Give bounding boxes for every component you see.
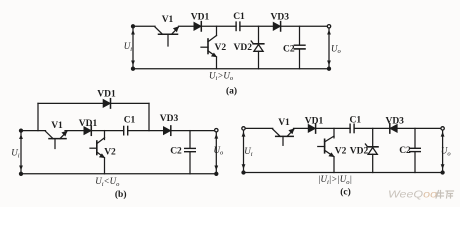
svg-text:Ui>Uo: Ui>Uo	[209, 70, 234, 82]
svg-text:C2: C2	[283, 45, 295, 55]
capacitor C2 (b)	[185, 131, 196, 174]
svg-text:VD3: VD3	[385, 116, 404, 126]
terminal (c) output -	[441, 171, 444, 174]
svg-text:C1: C1	[233, 12, 245, 22]
capacitor C2 (c)	[410, 128, 421, 172]
svg-text:VD2: VD2	[350, 146, 369, 156]
svg-text:C1: C1	[349, 116, 361, 126]
capacitor C1 (a)	[236, 22, 240, 30]
wire (a) V2 emitter	[216, 57, 218, 69]
svg-text:VD1: VD1	[305, 116, 324, 126]
voltage arrows Ui (a)	[131, 30, 135, 66]
terminal (c) output +	[441, 127, 444, 130]
wire (c) V2 emitter	[333, 157, 335, 173]
transistor V2 (b)	[90, 138, 105, 158]
transistor V2 (a)	[201, 36, 217, 58]
voltage arrows Ui (b)	[19, 134, 23, 170]
svg-text:C2: C2	[399, 146, 411, 156]
voltage arrows Uo (a)	[327, 30, 331, 66]
svg-text:V1: V1	[162, 15, 174, 25]
wire (c) top rail	[244, 127, 443, 129]
svg-text:(b): (b)	[115, 189, 127, 200]
diode VD1 (b)	[84, 126, 91, 135]
transistor V1 (a)	[155, 26, 179, 46]
capacitor C2 (a)	[294, 26, 305, 68]
svg-text:Ui: Ui	[11, 148, 20, 160]
wire (b) bottom rail	[21, 173, 216, 175]
wire (a) bottom rail	[133, 68, 329, 70]
terminal (a) output +	[327, 25, 330, 28]
diode VD1 (c)	[308, 124, 315, 133]
wire (b) V2 collector	[104, 131, 106, 140]
wire (b) top rail	[21, 130, 216, 132]
terminal (b) output +	[215, 129, 218, 132]
wire (a) input vertical	[132, 26, 134, 68]
terminal (b) input +	[19, 129, 22, 132]
terminal (c) input -	[242, 171, 245, 174]
svg-text:VD1: VD1	[79, 119, 98, 129]
watermark WeeQoo weiku	[388, 190, 454, 201]
terminal (a) input +	[131, 25, 134, 28]
svg-text:VD3: VD3	[160, 114, 179, 124]
svg-text:V2: V2	[335, 146, 347, 156]
transistor V1 (c)	[273, 128, 295, 145]
diode VD1 bypass (b)	[103, 99, 110, 108]
svg-text:WeeQoo: WeeQoo	[388, 190, 437, 201]
svg-text:VD2: VD2	[234, 43, 253, 53]
svg-text:|Ui|>|Uo|: |Ui|>|Uo|	[318, 174, 352, 186]
svg-text:VD3: VD3	[271, 13, 290, 23]
wire (c) V2 collector	[333, 128, 335, 137]
wire (a) V2 collector	[216, 26, 218, 35]
diode VD3 (b)	[164, 126, 171, 135]
voltage arrows Uo (c)	[441, 132, 445, 169]
diode VD3 (c)	[390, 124, 397, 133]
svg-text:Ui: Ui	[124, 41, 133, 53]
voltage arrows Ui (c)	[242, 132, 246, 169]
svg-text:(c): (c)	[340, 187, 351, 198]
diode VD3 (a)	[273, 22, 280, 31]
terminal (b) output -	[215, 172, 218, 175]
svg-text:Uo: Uo	[214, 145, 225, 157]
svg-text:V1: V1	[278, 118, 290, 128]
wire (b) output vertical	[215, 131, 217, 174]
transistor V2 (c)	[318, 136, 335, 157]
terminal (c) input +	[242, 127, 245, 130]
diode VD1 (a)	[194, 22, 201, 31]
svg-text:Uo: Uo	[331, 43, 342, 55]
wire (b) bypass branch	[38, 103, 149, 130]
svg-text:VD1: VD1	[97, 90, 116, 100]
wire (a) top rail	[133, 25, 329, 27]
capacitor C1 (b)	[124, 126, 128, 134]
wire (a) output vertical	[328, 26, 330, 68]
terminal (a) input -	[131, 67, 134, 70]
wire (b) input vertical	[20, 131, 22, 174]
wire (c) output vertical	[442, 128, 444, 172]
svg-text:(a): (a)	[226, 85, 237, 96]
transistor V1 (b)	[46, 131, 68, 149]
svg-text:VD1: VD1	[191, 13, 210, 23]
zener diode VD2 (c)	[365, 128, 378, 172]
wire (b) V2 emitter	[104, 158, 106, 174]
zener diode VD2 (a)	[251, 26, 264, 68]
terminal (a) output -	[327, 67, 330, 70]
svg-text:V1: V1	[51, 121, 63, 131]
svg-text:Ui: Ui	[244, 146, 253, 158]
wire (c) input vertical	[243, 128, 245, 172]
svg-text:V2: V2	[104, 148, 116, 158]
capacitor C1 (c)	[350, 124, 354, 132]
svg-text:C2: C2	[170, 146, 182, 156]
voltage arrows Uo (b)	[214, 134, 218, 171]
svg-text:V2: V2	[214, 43, 226, 53]
svg-text:Ui<Uo: Ui<Uo	[95, 176, 120, 188]
svg-text:C1: C1	[124, 116, 136, 126]
terminal (b) input -	[19, 172, 22, 175]
wire (c) bottom rail	[244, 172, 443, 174]
